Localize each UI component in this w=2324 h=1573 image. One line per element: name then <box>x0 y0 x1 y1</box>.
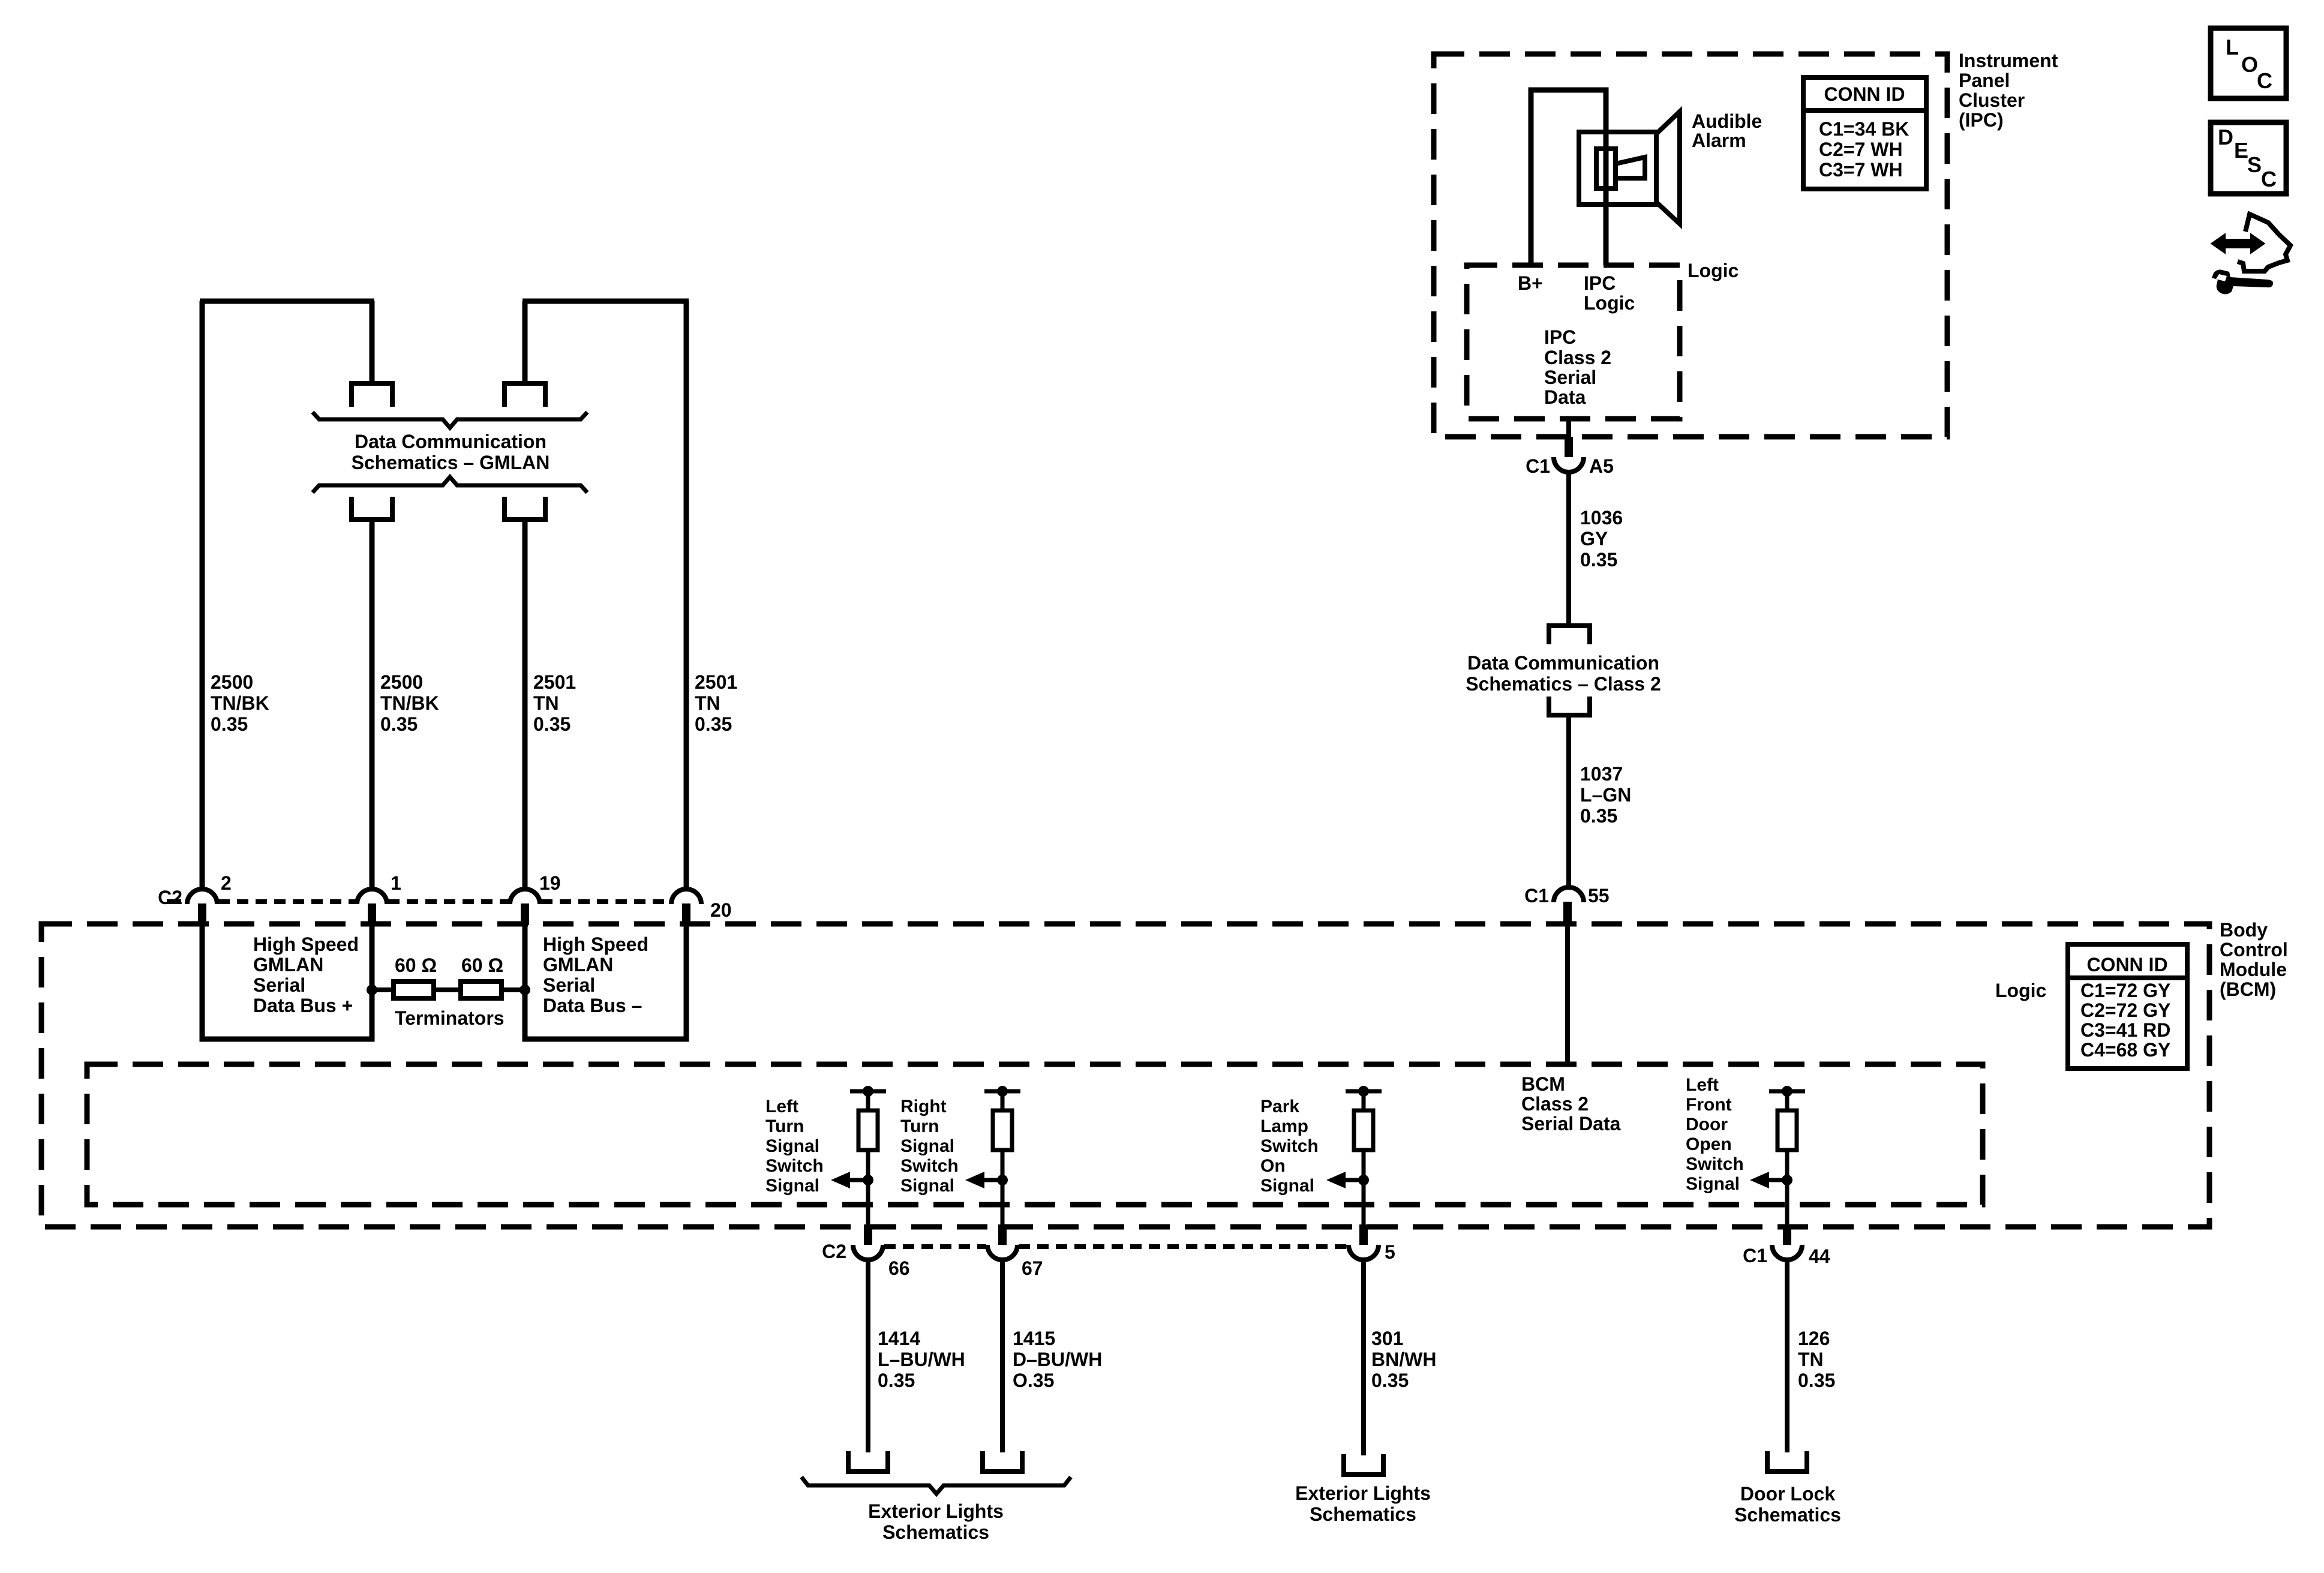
svg-text:66: 66 <box>888 1257 910 1279</box>
svg-text:5: 5 <box>1385 1241 1395 1263</box>
svg-text:Exterior Lights: Exterior Lights <box>868 1500 1004 1522</box>
label Body Control Module (BCM) <box>2220 919 2288 1000</box>
svg-text:On: On <box>1260 1156 1286 1176</box>
label Data Communication Schematics - GMLAN <box>352 431 550 473</box>
svg-text:Signal: Signal <box>1686 1174 1740 1194</box>
label Terminators <box>395 1007 505 1029</box>
svg-text:60 Ω: 60 Ω <box>461 954 503 976</box>
label C1 (IPC) <box>1526 455 1550 477</box>
svg-text:L–BU/WH: L–BU/WH <box>878 1349 965 1370</box>
svg-text:Terminators: Terminators <box>395 1007 505 1029</box>
connector arc pin 44 <box>1772 1245 1802 1260</box>
svg-text:Logic: Logic <box>1584 292 1635 314</box>
svg-text:E: E <box>2234 138 2248 163</box>
connector arc pin 20 <box>671 889 701 904</box>
svg-text:Open: Open <box>1686 1134 1732 1154</box>
svg-text:L: L <box>2226 35 2239 59</box>
resistor leg right turn signal <box>984 1086 1020 1226</box>
svg-text:Switch: Switch <box>1686 1154 1744 1174</box>
label Exterior Lights Schematics (left) <box>868 1500 1004 1543</box>
svg-text:Signal: Signal <box>765 1136 819 1156</box>
connector arc pin 67 <box>987 1245 1017 1260</box>
svg-text:S: S <box>2247 152 2262 177</box>
label terminal IPC Logic <box>1584 272 1635 314</box>
resistor terminator 2 (60 ohm) <box>461 981 502 998</box>
off-page terminal wire 126 <box>1767 1451 1807 1472</box>
label pin 20 <box>710 899 732 921</box>
off-page terminal upper right (to Data Communication Schematics GMLAN) <box>505 383 545 407</box>
svg-text:A5: A5 <box>1589 455 1614 477</box>
icon LOC box <box>2211 28 2286 98</box>
table BCM CONN ID <box>2068 944 2187 1068</box>
connector pin 1 terminal <box>368 903 376 925</box>
svg-text:Schematics: Schematics <box>1310 1503 1416 1525</box>
label Park Lamp Switch On Signal <box>1260 1097 1319 1196</box>
label Instrument Panel Cluster (IPC) <box>1959 50 2058 131</box>
svg-text:Park: Park <box>1260 1097 1299 1116</box>
svg-text:Left: Left <box>765 1097 798 1116</box>
svg-text:Turn: Turn <box>900 1116 939 1136</box>
svg-text:Serial: Serial <box>253 974 305 996</box>
label wire 2501 TN 0.35 (outer) <box>695 671 737 735</box>
svg-text:Instrument: Instrument <box>1959 50 2058 71</box>
svg-text:GMLAN: GMLAN <box>543 954 613 975</box>
svg-text:Signal: Signal <box>1260 1176 1314 1196</box>
svg-text:1: 1 <box>391 872 401 894</box>
svg-text:0.35: 0.35 <box>1371 1370 1409 1391</box>
svg-text:Data Bus –: Data Bus – <box>543 995 642 1016</box>
svg-text:C4=68 GY: C4=68 GY <box>2080 1039 2170 1061</box>
module Instrument Panel Cluster dashed box <box>1434 54 1947 437</box>
wire GMLAN bus + outer left (2500 TN/BK) <box>200 301 205 888</box>
connector arc pin 19 <box>510 889 540 904</box>
svg-text:C: C <box>2257 68 2272 93</box>
svg-text:Schematics: Schematics <box>882 1521 989 1543</box>
svg-text:D: D <box>2218 125 2233 149</box>
node High Speed GMLAN Serial Data Bus - box <box>525 925 686 1039</box>
label 60 ohm (2) <box>461 954 503 976</box>
svg-text:Body: Body <box>2220 919 2268 941</box>
svg-text:20: 20 <box>710 899 732 921</box>
svg-text:1415: 1415 <box>1013 1328 1055 1349</box>
svg-text:IPC: IPC <box>1584 272 1616 294</box>
icon DESC box <box>2211 122 2286 194</box>
label wire 1414 L-BU/WH 0.35 <box>878 1328 965 1391</box>
svg-text:TN: TN <box>1798 1349 1824 1370</box>
label wire 2500 TN/BK 0.35 (inner) <box>380 671 439 735</box>
label A5 <box>1589 455 1614 477</box>
svg-text:BN/WH: BN/WH <box>1371 1349 1436 1370</box>
svg-text:Module: Module <box>2220 959 2287 980</box>
svg-text:0.35: 0.35 <box>1580 805 1617 827</box>
svg-text:IPC: IPC <box>1544 326 1576 348</box>
label pin 5 <box>1385 1241 1395 1263</box>
svg-text:Data Bus +: Data Bus + <box>253 995 353 1016</box>
label wire 2501 TN 0.35 (inner) <box>533 671 576 735</box>
svg-text:Class 2: Class 2 <box>1544 347 1611 368</box>
svg-text:(IPC): (IPC) <box>1959 109 2004 131</box>
connector arc pin 1 <box>357 889 387 904</box>
svg-text:C2: C2 <box>158 887 182 908</box>
svg-text:2501: 2501 <box>533 671 576 693</box>
label Left Turn Signal Switch Signal <box>765 1097 824 1196</box>
svg-text:O.35: O.35 <box>1013 1370 1054 1391</box>
label wire 301 BN/WH 0.35 <box>1371 1328 1436 1391</box>
svg-text:Switch: Switch <box>765 1156 824 1176</box>
off-page terminal wire 301 <box>1344 1454 1383 1475</box>
connector pin 66 terminal <box>864 1224 872 1245</box>
label wire 2500 TN/BK 0.35 (outer) <box>211 671 269 735</box>
svg-text:Signal: Signal <box>765 1176 819 1196</box>
wire GMLAN bus - outer right (2501 TN) <box>684 301 689 888</box>
label C1 (BCM 44) <box>1743 1245 1767 1266</box>
wire terminator link right <box>502 987 525 992</box>
svg-text:TN: TN <box>533 692 559 714</box>
label BCM Class 2 Serial Data <box>1521 1073 1621 1134</box>
wire terminator middle link <box>434 987 461 992</box>
svg-text:Data Communication: Data Communication <box>1467 652 1659 674</box>
label pin 66 <box>888 1257 910 1279</box>
svg-text:Right: Right <box>900 1097 947 1116</box>
svg-text:0.35: 0.35 <box>878 1370 915 1391</box>
connector pin 44 terminal <box>1783 1224 1791 1245</box>
svg-text:C: C <box>2261 167 2277 191</box>
svg-text:TN/BK: TN/BK <box>211 692 269 714</box>
svg-text:2: 2 <box>221 872 232 894</box>
connector pin 5 terminal <box>1359 1224 1368 1245</box>
label Logic (IPC) <box>1688 260 1739 281</box>
svg-text:C2: C2 <box>822 1241 846 1262</box>
dotted connector line C2 top row <box>167 899 670 904</box>
svg-text:L–GN: L–GN <box>1580 784 1631 806</box>
svg-text:0.35: 0.35 <box>380 713 418 735</box>
svg-text:Serial: Serial <box>543 974 595 996</box>
wire 126 TN <box>1785 1260 1789 1452</box>
resistor leg left turn signal <box>850 1086 886 1226</box>
off-page terminal upper left (to Data Communication Schematics GMLAN) <box>352 383 392 407</box>
speaker audible alarm driver <box>1596 149 1616 188</box>
brace lower (GMLAN reference) <box>313 477 587 493</box>
svg-text:Schematics: Schematics <box>1734 1504 1841 1526</box>
label 60 ohm (1) <box>395 954 437 976</box>
svg-text:Switch: Switch <box>900 1156 959 1176</box>
svg-text:Panel: Panel <box>1959 70 2010 91</box>
icon diagnostic pointer double arrow <box>2212 235 2263 252</box>
label Exterior Lights Schematics (right) <box>1295 1482 1431 1525</box>
svg-text:Logic: Logic <box>1688 260 1739 281</box>
brace upper (GMLAN reference) <box>313 412 587 428</box>
connector arc pin 5 <box>1349 1245 1379 1260</box>
svg-text:1037: 1037 <box>1580 763 1623 785</box>
connector pin 55 terminal <box>1563 902 1572 924</box>
arrow left front door open output <box>1750 1172 1792 1188</box>
label pin 19 <box>539 872 561 894</box>
svg-text:Cluster: Cluster <box>1959 89 2025 111</box>
connector C2 label (BCM top row) <box>158 887 182 908</box>
svg-text:GY: GY <box>1580 528 1608 550</box>
label wire 1415 D-BU/WH O.35 <box>1013 1328 1102 1391</box>
off-page terminal wire 1414 <box>848 1451 888 1472</box>
svg-text:CONN ID: CONN ID <box>1824 83 1905 105</box>
wire 1036 GY upper <box>1566 472 1571 625</box>
svg-text:Class 2: Class 2 <box>1521 1093 1589 1115</box>
svg-text:C1: C1 <box>1524 885 1549 906</box>
svg-text:C3=41 RD: C3=41 RD <box>2080 1019 2170 1041</box>
wire GMLAN bus + inner drop (2500 TN/BK) <box>370 301 375 382</box>
label High Speed GMLAN Serial Data Bus + <box>253 933 359 1016</box>
off-page terminal lower left <box>352 497 392 520</box>
svg-text:D–BU/WH: D–BU/WH <box>1013 1349 1102 1370</box>
svg-text:C2=7 WH: C2=7 WH <box>1819 139 1903 160</box>
svg-text:Logic: Logic <box>1995 980 2046 1001</box>
svg-text:55: 55 <box>1588 885 1610 906</box>
svg-text:44: 44 <box>1809 1245 1830 1267</box>
svg-text:(BCM): (BCM) <box>2220 978 2276 1000</box>
wire 1415 D-BU/WH <box>1000 1260 1005 1452</box>
svg-text:0.35: 0.35 <box>533 713 571 735</box>
label High Speed GMLAN Serial Data Bus - <box>543 933 648 1016</box>
svg-text:CONN ID: CONN ID <box>2086 954 2167 975</box>
svg-text:Switch: Switch <box>1260 1136 1319 1156</box>
wire IPC class 2 serial data to connector <box>1566 419 1571 438</box>
svg-text:Front: Front <box>1686 1095 1732 1115</box>
wire 2501 TN inner continuation <box>523 520 528 888</box>
svg-text:1036: 1036 <box>1580 507 1623 529</box>
svg-text:0.35: 0.35 <box>1580 549 1617 571</box>
label Data Communication Schematics - Class 2 <box>1466 652 1661 695</box>
svg-text:19: 19 <box>539 872 561 894</box>
svg-text:C3=7 WH: C3=7 WH <box>1819 159 1903 181</box>
label pin 2 <box>221 872 232 894</box>
brace exterior lights schematics <box>801 1477 1071 1494</box>
node High Speed GMLAN Serial Data Bus + box <box>202 925 372 1039</box>
wire GMLAN bus + top loop <box>200 299 374 304</box>
svg-text:Serial Data: Serial Data <box>1521 1113 1621 1134</box>
svg-text:Door: Door <box>1686 1115 1728 1134</box>
connector arc pin 66 <box>853 1245 883 1260</box>
node BCM logic inner dashed box <box>87 1064 1983 1205</box>
svg-text:Door Lock: Door Lock <box>1740 1483 1835 1505</box>
icon diagnostic wrench <box>2212 270 2273 295</box>
connector pin 2 terminal <box>198 903 206 925</box>
svg-text:Lamp: Lamp <box>1260 1116 1308 1136</box>
svg-text:Audible: Audible <box>1692 110 1762 132</box>
label wire 1037 L-GN 0.35 <box>1580 763 1631 827</box>
svg-text:Serial: Serial <box>1544 367 1596 388</box>
svg-text:C1=72 GY: C1=72 GY <box>2080 980 2170 1001</box>
connector C2 label (BCM bottom row) <box>822 1241 846 1262</box>
svg-text:Left: Left <box>1686 1075 1719 1095</box>
svg-text:Schematics – Class 2: Schematics – Class 2 <box>1466 673 1661 695</box>
wire 2500 TN/BK inner continuation <box>370 520 375 888</box>
svg-text:Schematics – GMLAN: Schematics – GMLAN <box>352 452 550 473</box>
label C1 (BCM 55) <box>1524 885 1549 906</box>
label Left Front Door Open Switch Signal <box>1686 1075 1744 1194</box>
wire terminator link left <box>372 987 394 992</box>
svg-text:C1: C1 <box>1743 1245 1767 1266</box>
wire 1414 L-BU/WH <box>866 1260 870 1452</box>
label Audible Alarm <box>1692 110 1762 151</box>
svg-text:0.35: 0.35 <box>211 713 248 735</box>
dotted connector line C2 bottom row (66-67) <box>884 1244 986 1249</box>
svg-text:126: 126 <box>1798 1328 1830 1349</box>
svg-text:301: 301 <box>1371 1328 1403 1349</box>
module Body Control Module dashed box <box>41 924 2209 1227</box>
label wire 1036 GY 0.35 <box>1580 507 1623 571</box>
resistor leg park lamp <box>1346 1086 1382 1226</box>
svg-text:67: 67 <box>1022 1257 1043 1279</box>
junction dot bus + <box>367 984 377 995</box>
svg-text:Control: Control <box>2220 939 2288 960</box>
table IPC CONN ID <box>1803 77 1926 189</box>
connector arc C1 A5 <box>1554 457 1584 472</box>
svg-text:Exterior Lights: Exterior Lights <box>1295 1482 1431 1504</box>
arrow park lamp output <box>1326 1172 1369 1188</box>
node IPC logic inner dashed box <box>1467 265 1680 419</box>
connector pin A5 terminal <box>1565 437 1573 457</box>
svg-text:B+: B+ <box>1518 272 1543 294</box>
wire GMLAN bus - inner drop (2501 TN) <box>523 301 528 382</box>
svg-text:C1=34 BK: C1=34 BK <box>1819 118 1909 140</box>
svg-text:C2=72 GY: C2=72 GY <box>2080 999 2170 1021</box>
svg-text:0.35: 0.35 <box>1798 1370 1835 1391</box>
label wire 126 TN 0.35 <box>1798 1328 1835 1391</box>
svg-text:TN/BK: TN/BK <box>380 692 439 714</box>
svg-text:C1: C1 <box>1526 455 1550 477</box>
label Door Lock Schematics <box>1734 1483 1841 1526</box>
svg-text:High Speed: High Speed <box>543 933 648 955</box>
wire BCM class 2 serial data internal <box>1565 924 1570 1064</box>
label IPC Class 2 Serial Data <box>1544 326 1611 408</box>
svg-text:Alarm: Alarm <box>1692 130 1746 151</box>
svg-text:Signal: Signal <box>900 1176 954 1196</box>
label Right Turn Signal Switch Signal <box>900 1097 959 1196</box>
resistor terminator 1 (60 ohm) <box>394 981 434 998</box>
svg-text:BCM: BCM <box>1521 1073 1565 1095</box>
speaker audible alarm outer box <box>1579 132 1656 205</box>
svg-text:Data Communication: Data Communication <box>355 431 547 452</box>
svg-text:2500: 2500 <box>211 671 253 693</box>
connector pin 67 terminal <box>998 1224 1007 1245</box>
svg-text:60 Ω: 60 Ω <box>395 954 437 976</box>
speaker audible alarm cone <box>1656 112 1680 224</box>
connector arc C1 55 (BCM top) <box>1554 887 1584 902</box>
label pin 44 <box>1809 1245 1830 1267</box>
label 55 <box>1588 885 1610 906</box>
resistor leg left front door open <box>1769 1086 1805 1226</box>
label Logic (BCM) <box>1995 980 2046 1001</box>
off-page terminal to Class 2 schematics (upper) <box>1549 626 1590 644</box>
icon diagnostic pointer outline <box>2238 214 2290 271</box>
arrow left turn signal output <box>831 1172 873 1188</box>
speaker audible alarm horn <box>1616 157 1645 178</box>
svg-text:2500: 2500 <box>380 671 423 693</box>
wire GMLAN bus - top loop <box>523 299 689 304</box>
dotted connector line C2 bottom row (67-5) <box>1019 1244 1347 1249</box>
svg-text:GMLAN: GMLAN <box>253 954 323 975</box>
svg-text:Signal: Signal <box>900 1136 954 1156</box>
connector pin 19 terminal <box>521 903 529 925</box>
off-page terminal to Class 2 schematics (lower) <box>1549 697 1590 715</box>
label pin 67 <box>1022 1257 1043 1279</box>
label pin 1 <box>391 872 401 894</box>
svg-text:Turn: Turn <box>765 1116 804 1136</box>
label terminal B+ <box>1518 272 1543 294</box>
junction dot bus - <box>520 984 530 995</box>
svg-text:1414: 1414 <box>878 1328 920 1349</box>
connector arc pin 2 <box>187 889 217 904</box>
svg-text:O: O <box>2241 52 2258 77</box>
connector pin 20 terminal <box>682 903 690 925</box>
off-page terminal wire 1415 <box>983 1451 1022 1472</box>
svg-text:TN: TN <box>695 692 720 714</box>
arrow right turn signal output <box>965 1172 1008 1188</box>
svg-text:0.35: 0.35 <box>695 713 732 735</box>
svg-text:2501: 2501 <box>695 671 737 693</box>
svg-text:High Speed: High Speed <box>253 933 359 955</box>
wire 1037 L-GN <box>1566 715 1571 887</box>
wire B+ feed loop <box>1531 90 1606 265</box>
off-page terminal lower right <box>505 497 545 520</box>
wire 301 BN/WH <box>1361 1260 1366 1455</box>
svg-text:Data: Data <box>1544 386 1586 408</box>
